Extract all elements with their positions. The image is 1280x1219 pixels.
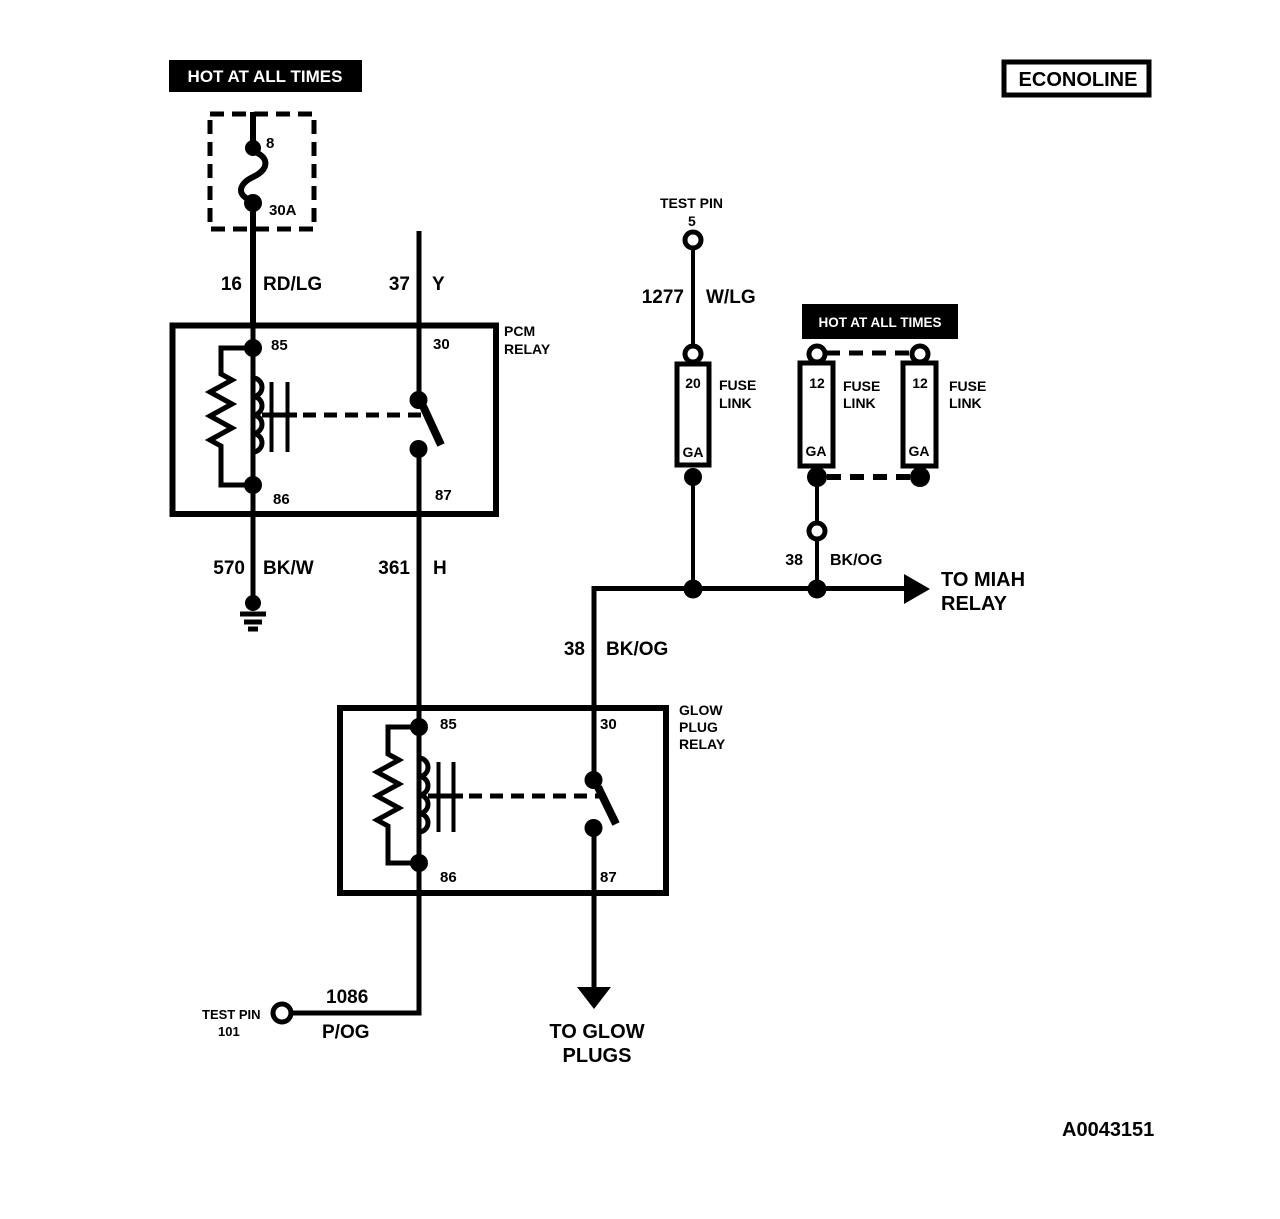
svg-text:LINK: LINK: [949, 395, 982, 411]
svg-text:LINK: LINK: [719, 395, 752, 411]
svg-text:37: 37: [389, 274, 410, 295]
wire circuit 570 BK/W: [213, 514, 313, 597]
svg-text:30: 30: [433, 336, 450, 353]
svg-text:FUSE: FUSE: [843, 378, 880, 394]
svg-text:87: 87: [600, 869, 617, 886]
svg-text:PLUGS: PLUGS: [563, 1045, 632, 1067]
svg-text:HOT AT ALL TIMES: HOT AT ALL TIMES: [188, 67, 343, 86]
svg-text:85: 85: [271, 337, 288, 354]
PCM relay box: [173, 323, 551, 514]
PCM relay pin labels: [271, 336, 452, 508]
resistor in glow plug relay: [377, 727, 419, 863]
svg-text:87: 87: [435, 487, 452, 504]
header HOT AT ALL TIMES (right): [802, 304, 958, 339]
wire circuit 38 BK/OG (fuse link drop): [785, 477, 882, 591]
actuation dashed line PCM: [262, 413, 427, 418]
svg-text:12: 12: [912, 375, 928, 391]
svg-text:RELAY: RELAY: [504, 341, 551, 357]
svg-text:BK/W: BK/W: [263, 558, 314, 579]
ECONOLINE title box: [1004, 62, 1149, 95]
node glow relay pin 85: [410, 710, 428, 893]
wire circuit 361 H: [378, 514, 446, 710]
wire to glow plugs with arrowhead: [549, 893, 644, 1067]
glow plug relay box: [340, 702, 726, 893]
wire circuit 38 BK/OG (to glow plug relay): [564, 586, 668, 711]
svg-text:FUSE: FUSE: [949, 378, 986, 394]
svg-text:TO MIAH: TO MIAH: [941, 569, 1025, 591]
svg-text:16: 16: [221, 274, 242, 295]
svg-text:FUSE: FUSE: [719, 377, 756, 393]
test pin 101: [202, 1004, 291, 1039]
dashed tie bottom between fuse links: [827, 474, 910, 480]
svg-text:GLOW: GLOW: [679, 702, 723, 718]
svg-text:86: 86: [273, 491, 290, 508]
svg-text:TO GLOW: TO GLOW: [549, 1021, 644, 1043]
svg-text:TEST PIN: TEST PIN: [202, 1007, 261, 1022]
header HOT AT ALL TIMES (left): [169, 60, 362, 92]
wire circuit 1277 W/LG: [642, 248, 756, 345]
ground: [240, 595, 266, 629]
circuit breaker element: [241, 112, 297, 219]
svg-text:Y: Y: [432, 274, 445, 295]
svg-text:RELAY: RELAY: [941, 593, 1008, 615]
svg-text:86: 86: [440, 869, 457, 886]
svg-text:ECONOLINE: ECONOLINE: [1019, 69, 1138, 91]
svg-text:12: 12: [809, 375, 825, 391]
wire circuit 1086 P/OG: [292, 893, 422, 1043]
fuse link 20 GA: [677, 346, 756, 486]
svg-text:1086: 1086: [326, 987, 368, 1008]
switch contacts glow relay (pins 30/87): [585, 710, 617, 893]
svg-text:LINK: LINK: [843, 395, 876, 411]
svg-text:20: 20: [685, 375, 701, 391]
svg-text:PLUG: PLUG: [679, 719, 718, 735]
arrowhead to MIAH relay: [904, 569, 1025, 615]
coil in PCM relay: [253, 378, 288, 452]
wire circuit 16 RD/LG: [221, 208, 322, 326]
svg-text:P/OG: P/OG: [322, 1022, 370, 1043]
svg-text:RELAY: RELAY: [679, 736, 726, 752]
svg-text:A0043151: A0043151: [1062, 1119, 1154, 1141]
svg-text:38: 38: [564, 639, 585, 660]
svg-text:30A: 30A: [269, 202, 297, 219]
svg-text:PCM: PCM: [504, 323, 535, 339]
svg-text:GA: GA: [683, 444, 704, 460]
svg-text:GA: GA: [806, 443, 827, 459]
dashed tie top between fuse links: [826, 351, 912, 356]
switch contacts PCM (pins 30/87): [410, 326, 442, 514]
wire circuit 37 Y: [389, 231, 445, 326]
bus wire to MIAH relay: [594, 580, 906, 599]
node glow relay pin 86: [410, 854, 428, 872]
svg-text:HOT AT ALL TIMES: HOT AT ALL TIMES: [819, 315, 942, 330]
node PCM pin 86: [244, 476, 262, 494]
wire fuse link to bus: [691, 477, 695, 591]
glow plug relay pin labels: [440, 716, 617, 886]
coil in glow plug relay: [419, 758, 454, 832]
test pin 5: [660, 195, 723, 248]
svg-text:30: 30: [600, 716, 617, 733]
svg-text:BK/OG: BK/OG: [606, 639, 668, 660]
svg-text:BK/OG: BK/OG: [830, 552, 882, 569]
resistor in PCM relay: [210, 348, 253, 485]
svg-text:101: 101: [218, 1024, 240, 1039]
figure number A0043151: [1062, 1119, 1154, 1141]
svg-text:38: 38: [785, 552, 803, 569]
actuation dashed line glow relay: [428, 794, 602, 799]
svg-text:W/LG: W/LG: [706, 287, 756, 308]
svg-text:361: 361: [378, 558, 410, 579]
circuit breaker CB 30A dashed box: [210, 114, 314, 229]
fuse link 12 GA (left): [800, 346, 880, 487]
svg-text:TEST PIN: TEST PIN: [660, 195, 723, 211]
svg-text:H: H: [433, 558, 447, 579]
svg-text:570: 570: [213, 558, 245, 579]
svg-text:RD/LG: RD/LG: [263, 274, 322, 295]
svg-text:GA: GA: [909, 443, 930, 459]
svg-text:85: 85: [440, 716, 457, 733]
svg-text:1277: 1277: [642, 287, 684, 308]
node PCM pin 85: [244, 326, 262, 514]
svg-text:8: 8: [266, 135, 274, 152]
svg-text:5: 5: [688, 213, 696, 229]
fuse link 12 GA (right): [903, 346, 986, 487]
